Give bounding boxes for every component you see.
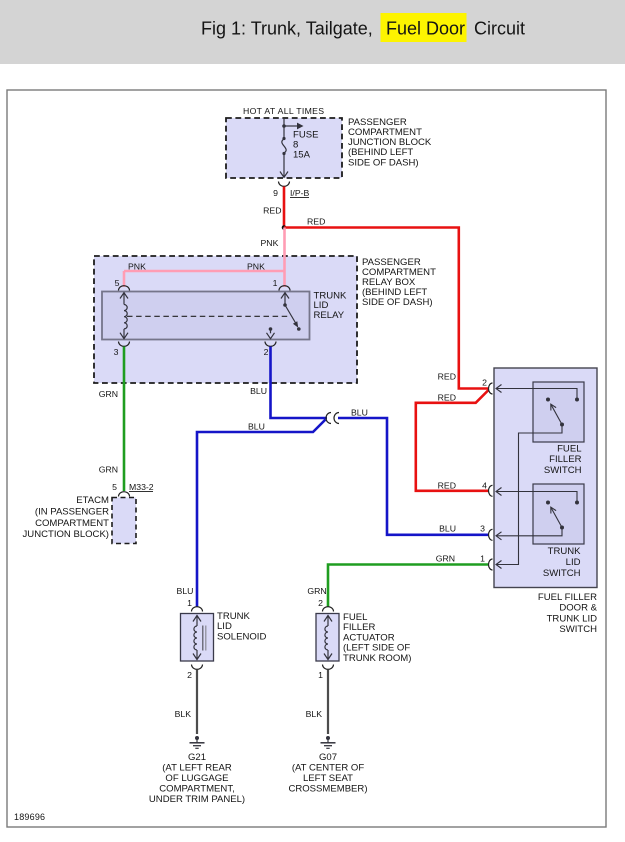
trunk lid solenoid [181, 614, 214, 662]
svg-text:TRUNK ROOM): TRUNK ROOM) [343, 653, 411, 664]
fuse value labels [293, 130, 318, 161]
pin 3 connector [114, 342, 130, 358]
junction block PCJB (dashed box) [226, 118, 342, 178]
svg-text:JUNCTION BLOCK): JUNCTION BLOCK) [23, 529, 109, 540]
junction node [282, 225, 287, 230]
svg-text:RED: RED [263, 206, 281, 216]
svg-text:ETACM: ETACM [76, 495, 109, 506]
svg-text:189696: 189696 [14, 812, 45, 822]
svg-text:GRN: GRN [436, 554, 455, 564]
svg-text:SWITCH: SWITCH [544, 465, 582, 476]
fuel filler switch SW1 [496, 385, 579, 569]
svg-text:BLU: BLU [250, 386, 267, 396]
relay box PCRB (dashed box) [94, 256, 357, 383]
wire GRN switch pin1 to actuator [307, 554, 489, 608]
svg-text:GRN: GRN [99, 389, 118, 399]
wire RED branch to pin 4 [416, 390, 489, 491]
wire GRN relay pin3 to ETACM [99, 347, 124, 492]
svg-text:BLU: BLU [439, 524, 456, 534]
solenoid name label [217, 611, 266, 642]
svg-text:DOOR &: DOOR & [559, 603, 597, 614]
svg-text:2: 2 [482, 378, 487, 388]
svg-text:BLU: BLU [351, 408, 368, 418]
fuel filler actuator [316, 614, 339, 662]
svg-text:15A: 15A [293, 150, 311, 161]
svg-text:PNK: PNK [247, 262, 265, 272]
svg-text:2: 2 [264, 347, 269, 357]
svg-text:FUEL FILLER: FUEL FILLER [538, 592, 597, 603]
actuator name label [343, 612, 411, 664]
wire BLU branch to solenoid [177, 420, 326, 608]
relay switch [267, 293, 301, 339]
svg-text:Fuel Door: Fuel Door [386, 19, 465, 39]
svg-text:RELAY: RELAY [314, 310, 345, 321]
ground G07 [321, 736, 336, 748]
svg-text:Circuit: Circuit [474, 19, 525, 39]
pin 1 connector [273, 278, 290, 291]
ETACM pin 5 connector M33-2 [112, 482, 154, 497]
svg-text:5: 5 [115, 278, 120, 288]
svg-text:G07: G07 [319, 752, 337, 763]
svg-text:(AT CENTER OF: (AT CENTER OF [292, 763, 364, 774]
pin 4 connector (switch) [482, 480, 492, 496]
wire BLU relay pin2 to inline connector [250, 347, 327, 419]
wire RED horizontal to right [284, 217, 489, 389]
svg-text:SWITCH: SWITCH [543, 568, 581, 579]
svg-text:UNDER TRIM PANEL): UNDER TRIM PANEL) [149, 794, 245, 805]
pin 2 connector [264, 342, 276, 358]
svg-text:BLK: BLK [306, 709, 323, 719]
svg-text:PNK: PNK [261, 238, 279, 248]
svg-text:4: 4 [482, 480, 487, 490]
svg-text:CROSSMEMBER): CROSSMEMBER) [288, 784, 367, 795]
actuator pin 2 connector [318, 598, 333, 612]
svg-text:COMPARTMENT: COMPARTMENT [35, 518, 109, 529]
svg-text:GRN: GRN [307, 586, 326, 596]
svg-text:OF LUGGAGE: OF LUGGAGE [165, 773, 228, 784]
svg-text:LID: LID [566, 557, 581, 568]
inline connector C [326, 413, 339, 424]
svg-text:G21: G21 [188, 752, 206, 763]
svg-text:1: 1 [480, 554, 485, 564]
svg-text:COMPARTMENT,: COMPARTMENT, [159, 784, 235, 795]
trunk lid switch box [533, 484, 584, 544]
pin 5 connector [115, 278, 130, 291]
pin 1 connector (switch) [480, 554, 492, 571]
relay coil [120, 293, 128, 339]
pin 2 connector (switch) [482, 378, 492, 395]
pin 9 connector [273, 182, 309, 199]
fuse F8 15A [280, 118, 304, 177]
solenoid pin 2 connector [187, 665, 202, 681]
svg-text:1: 1 [318, 670, 323, 680]
svg-text:TRUNK LID: TRUNK LID [547, 613, 597, 624]
switch assembly box [494, 368, 597, 588]
svg-text:M33-2: M33-2 [129, 482, 154, 492]
solenoid pin 1 connector [187, 598, 202, 612]
svg-text:SIDE OF DASH): SIDE OF DASH) [348, 157, 419, 168]
svg-text:BLK: BLK [175, 709, 192, 719]
relay name label [314, 290, 348, 321]
switch assembly name label [538, 592, 598, 635]
svg-text:I/P-B: I/P-B [290, 188, 310, 198]
svg-text:RED: RED [438, 372, 456, 382]
svg-text:FUEL: FUEL [557, 444, 581, 455]
svg-text:FILLER: FILLER [549, 454, 581, 465]
svg-text:HOT AT ALL TIMES: HOT AT ALL TIMES [243, 106, 324, 116]
svg-text:1: 1 [187, 598, 192, 608]
svg-text:GRN: GRN [99, 465, 118, 475]
svg-text:3: 3 [114, 347, 119, 357]
ground G21 [190, 736, 205, 748]
svg-text:(IN PASSENGER: (IN PASSENGER [35, 506, 109, 517]
svg-text:RED: RED [307, 217, 325, 227]
trunk lid relay K1 (inner box) [102, 292, 310, 340]
svg-text:SWITCH: SWITCH [559, 624, 597, 635]
svg-text:TRUNK: TRUNK [548, 546, 582, 557]
svg-text:LEFT SEAT: LEFT SEAT [303, 773, 353, 784]
PCRB name label [362, 257, 436, 308]
wire BLU inline connector to switch pin 3 [338, 408, 489, 535]
ground G21 label [149, 752, 245, 805]
title bar [0, 0, 625, 64]
svg-text:2: 2 [318, 598, 323, 608]
actuator pin 1 connector [318, 665, 333, 681]
PCJB name label [348, 117, 432, 168]
wire RED from fuse [263, 187, 284, 228]
svg-text:5: 5 [112, 482, 117, 492]
svg-text:3: 3 [480, 524, 485, 534]
svg-text:2: 2 [187, 670, 192, 680]
ground G07 label [288, 752, 367, 795]
svg-text:BLU: BLU [248, 422, 265, 432]
trunk lid switch label [543, 546, 581, 579]
svg-text:RED: RED [438, 392, 456, 402]
relay internal dashed link [127, 315, 290, 317]
wire BLK solenoid to G21 [175, 670, 197, 735]
fuel filler switch label [544, 444, 582, 476]
svg-text:RED: RED [438, 480, 456, 490]
svg-text:9: 9 [273, 188, 278, 198]
svg-text:SOLENOID: SOLENOID [217, 631, 266, 642]
trunk lid switch SW2 [496, 488, 579, 540]
ETACM name label [23, 495, 110, 540]
svg-text:PNK: PNK [128, 262, 146, 272]
fuel filler switch box [533, 382, 584, 442]
svg-text:Fig 1: Trunk, Tailgate,: Fig 1: Trunk, Tailgate, [201, 19, 373, 39]
svg-text:SIDE OF DASH): SIDE OF DASH) [362, 297, 433, 308]
wire BLK actuator to G07 [306, 670, 328, 735]
svg-text:(AT LEFT REAR: (AT LEFT REAR [162, 763, 232, 774]
svg-text:BLU: BLU [177, 586, 194, 596]
pin 3 connector (switch) [480, 524, 492, 541]
ETACM (dashed box) [112, 498, 136, 544]
svg-text:1: 1 [273, 278, 278, 288]
wire PNK from junction to relay [124, 228, 285, 288]
